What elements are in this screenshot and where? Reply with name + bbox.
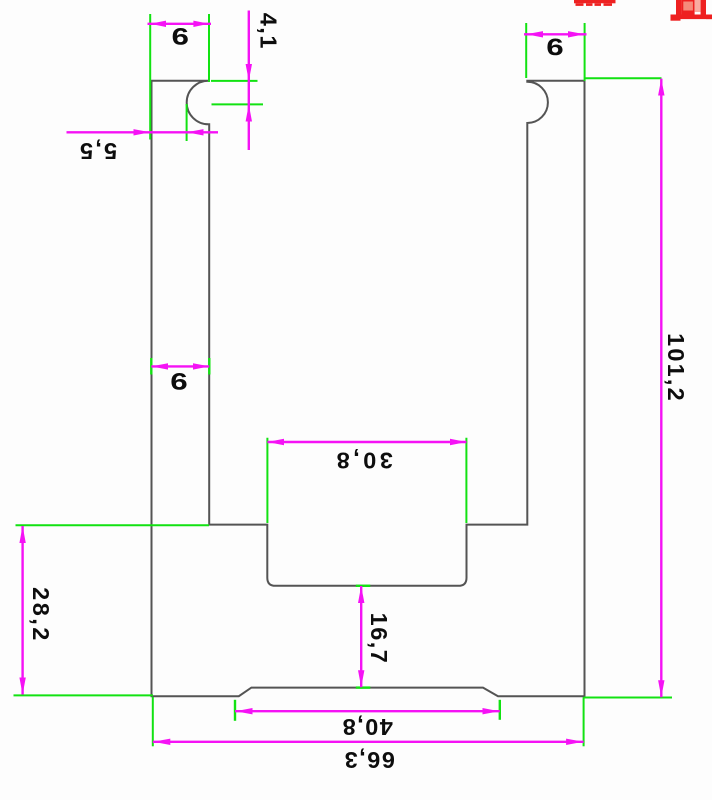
dim 40,8 : arrow left (236, 708, 253, 714)
svg-text:4,1: 4,1 (256, 13, 282, 50)
dim 4,1 : arrow up (246, 104, 252, 121)
dim 16,7 : extension tick top (356, 585, 371, 587)
dim 5,5 : arrow pointing left (187, 129, 204, 135)
dim 5,5 : dimension line (67, 131, 219, 133)
svg-text:66,3: 66,3 (343, 747, 395, 773)
svg-text:40,8: 40,8 (341, 714, 393, 740)
dim 6 top-right : arrow left (526, 31, 543, 37)
dim 101,2 : extension line bottom (584, 697, 672, 699)
dim 6 top-left : extension line right (208, 14, 210, 82)
dim 66,3 : dimension line (153, 741, 584, 743)
profile outline (152, 81, 585, 697)
dim 6 top-left : arrow right (193, 21, 209, 27)
dim 6 mid-left : extension tick right (208, 358, 210, 375)
dim 16,7 : dimension line (360, 586, 362, 687)
svg-text:9: 9 (172, 23, 189, 50)
svg-text:9: 9 (170, 368, 187, 395)
dim 66,3 : arrow right (566, 739, 583, 745)
dim 28,2 : extension line bottom (14, 694, 154, 696)
dim 66,3 : arrow left (153, 739, 170, 745)
dim 4,1 : extension line at top edge (211, 80, 258, 82)
dim 101,2 : arrow down (658, 680, 664, 697)
red logo (clipped icon) (671, 0, 712, 21)
svg-text:30,8: 30,8 (333, 448, 393, 474)
dim 4,1 : dimension line (248, 11, 250, 151)
dim 30,8 : arrow right (450, 439, 466, 445)
dim 6 top-right : dimension line (524, 33, 587, 35)
svg-text:28,2: 28,2 (28, 587, 54, 643)
red watermark bar (clipped text) (574, 0, 616, 6)
dim 40,8 : arrow right (483, 708, 500, 714)
svg-text:5,5: 5,5 (78, 138, 117, 164)
dim 4,1 : arrow down (246, 64, 252, 81)
dim 6 top-left : extension line left (149, 14, 151, 140)
dim 5,5 : extension line at notch left (186, 104, 188, 141)
dim 6 mid-left : dimension line (151, 365, 209, 367)
svg-text:9: 9 (546, 33, 563, 60)
dim 40,8 : extension tick left (234, 700, 236, 721)
dim 28,2 : dimension line (21, 526, 23, 695)
dim 16,7 : extension tick bottom (356, 686, 371, 688)
dim 16,7 : arrow down (358, 670, 364, 687)
dim 6 mid-left : extension tick left (150, 358, 152, 375)
dim 101,2 : extension line top (585, 77, 662, 79)
dim 101,2 : dimension line (660, 79, 662, 698)
dim 6 mid-left : arrow left (151, 363, 168, 369)
dim 30,8 : extension line left (266, 438, 268, 523)
dim 30,8 : extension line right (465, 438, 467, 523)
dim 4,1 : extension line at notch center (212, 103, 264, 105)
dim 5,5 : arrow pointing right (134, 129, 151, 135)
dim 40,8 : extension tick right (499, 700, 501, 720)
svg-text:101,2: 101,2 (663, 333, 689, 403)
dim 6 top-left : arrow left (150, 21, 166, 27)
dim 30,8 : dimension line (267, 441, 466, 443)
dim 66,3 : extension line right (583, 697, 585, 746)
dim 101,2 : arrow up (658, 79, 664, 96)
dim 28,2 : arrow down (19, 678, 25, 695)
dim 28,2 : arrow up (19, 526, 25, 543)
dim 6 top-right : extension line left (525, 23, 527, 78)
dim 40,8 : dimension line (235, 710, 500, 712)
dim 6 top-right : extension line right (584, 23, 586, 81)
dim 66,3 : extension line left (152, 697, 154, 746)
dim 6 top-left : dimension line (148, 23, 212, 25)
dim 6 mid-left : arrow right (193, 363, 209, 369)
dim 30,8 : arrow left (267, 439, 284, 445)
dim 16,7 : arrow up (358, 586, 364, 603)
svg-text:16,7: 16,7 (366, 613, 392, 665)
dim 6 top-right : arrow right (568, 31, 585, 37)
dim 28,2 : extension line top (16, 524, 210, 526)
